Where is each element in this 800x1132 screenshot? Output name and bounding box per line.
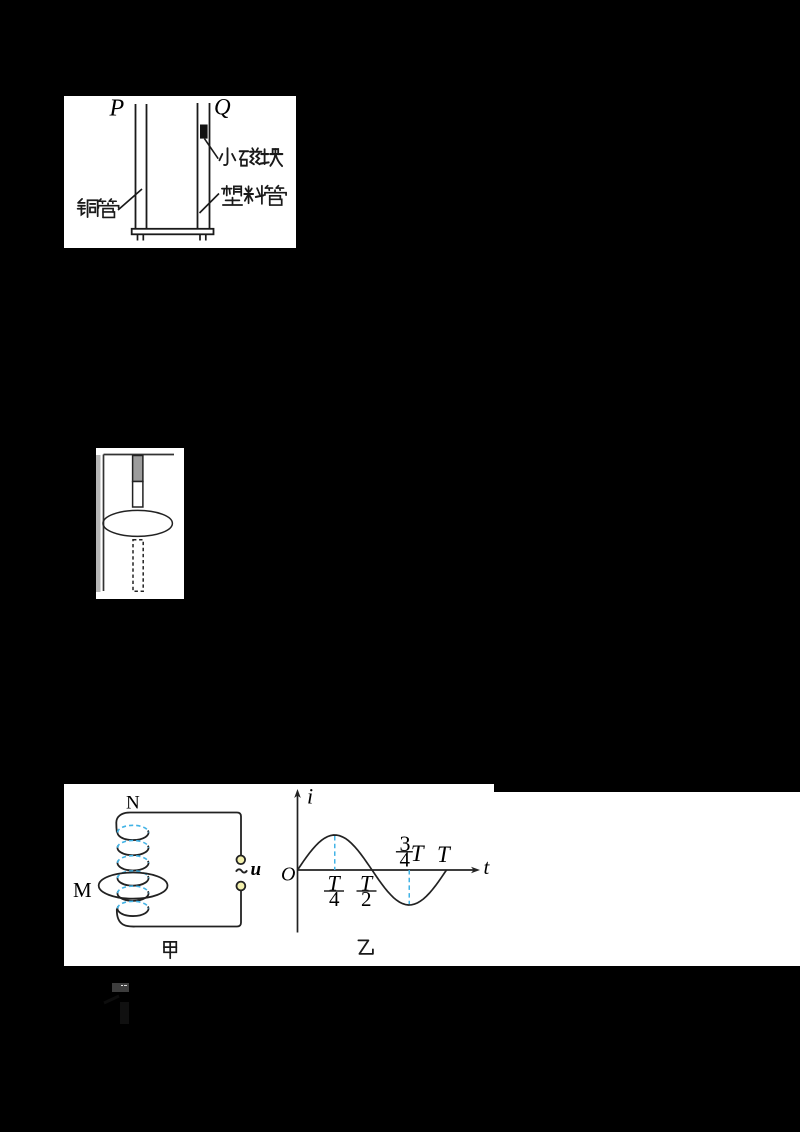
grey scan strip [96,455,101,592]
svg-text:N: N [126,793,140,814]
label 塑料管 [222,186,286,205]
svg-text:P: P [109,96,125,122]
sine curve [298,835,447,905]
graph: i axis [297,794,299,933]
stand feet [138,234,206,240]
ring (ellipse) [103,510,172,536]
small magnet (black) in tube Q [200,125,208,139]
stand base [132,229,214,235]
figure 1: two tubes P and Q on a stand [64,96,296,248]
figure 2: magnet falling through a ring [96,448,184,599]
svg-text:2: 2 [361,887,372,911]
bottom wire hook [117,891,241,927]
svg-text:u: u [251,859,262,880]
svg-text:i: i [307,784,313,809]
label 小磁块 [219,148,282,166]
faint artifact: dark column [120,1002,129,1025]
svg-text:T: T [437,842,452,867]
faint artifact: grey box with white specks [112,983,129,992]
svg-text:M: M [73,878,92,902]
svg-text:T: T [411,841,426,866]
faint artifact: dark diagonal [100,993,124,1007]
coil loops solid front arcs [118,831,149,917]
magnet rod: grey top half [133,456,143,482]
figure 3 right: blank white block [494,792,800,966]
dashed rectangle (previous magnet position) [133,540,143,592]
leader line to 铜管 [118,189,142,210]
top wire [116,813,130,833]
svg-text:4: 4 [329,887,340,911]
dashed guide at peak [334,836,336,870]
leader line to 塑料管 [200,194,220,214]
label 甲 [164,942,176,958]
tilde symbol [236,869,247,872]
tube P right wall [146,104,148,229]
label 乙 [358,940,373,954]
tube P left wall [135,104,137,229]
label 铜管 [78,199,119,218]
AC source terminal top [237,856,246,865]
figure 3 left: circuit 甲 and graph 乙 [64,784,494,966]
svg-text:t: t [484,855,491,879]
tube Q right wall [209,103,211,229]
support frame (L shape) [104,455,175,592]
svg-text:Q: Q [214,96,231,120]
tube Q left wall [197,103,199,229]
svg-text:O: O [281,864,295,886]
AC source terminal bottom [237,882,246,891]
coil loops dashed back arcs (cyan) [118,825,149,908]
magnet rod: white bottom half [133,482,143,508]
leader line to 小磁块 [204,139,218,159]
dashed guide at trough [408,870,410,904]
graph: t axis [298,869,476,871]
svg-text:4: 4 [400,848,411,872]
ring M around coil [99,873,168,899]
